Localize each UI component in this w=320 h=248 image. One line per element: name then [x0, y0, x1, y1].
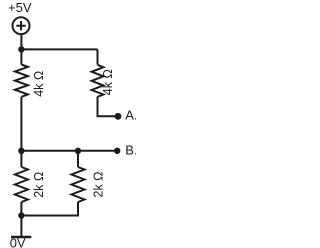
node junction bottom	[18, 212, 24, 218]
wire top horizontal	[21, 48, 97, 50]
wire R4 bottom to bottom rail	[21, 202, 78, 216]
voltage source plus sign	[16, 21, 25, 30]
wire left branch from R1 to node B	[20, 97, 22, 151]
ground bar 0V rail	[11, 236, 31, 238]
node junction B middle	[75, 148, 81, 154]
svg-text:4k Ω: 4k Ω	[32, 71, 46, 97]
node junction top	[18, 46, 24, 52]
node junction B left	[18, 148, 24, 154]
node B terminal dot	[114, 148, 120, 154]
resistor R4 2k ohm (right bottom)	[72, 167, 85, 202]
svg-text:2k Ω: 2k Ω	[92, 171, 106, 197]
wire right branch down to resistor R2	[97, 49, 99, 64]
svg-text:+5V: +5V	[8, 0, 32, 15]
wire node B horizontal	[21, 150, 116, 152]
resistor R3 2k ohm (left bottom)	[15, 167, 28, 202]
resistor R1 4k ohm (left top)	[15, 65, 28, 97]
wire node B to resistor R3	[20, 151, 22, 167]
voltage source V1 (+5V supply circle)	[13, 17, 30, 34]
svg-text:2k Ω: 2k Ω	[32, 172, 46, 198]
wire from supply to top node	[20, 34, 22, 64]
svg-text:B.: B.	[125, 143, 136, 158]
node A terminal dot	[115, 113, 122, 120]
wire R3 bottom to ground	[20, 202, 22, 236]
svg-text:A.: A.	[125, 107, 136, 122]
wire R2 bottom to node A	[98, 97, 117, 117]
wire node B to resistor R4	[77, 151, 79, 167]
svg-text:4k Ω: 4k Ω	[101, 69, 115, 95]
svg-text:0V: 0V	[10, 236, 26, 248]
resistor R2 4k ohm (right top)	[92, 65, 104, 97]
